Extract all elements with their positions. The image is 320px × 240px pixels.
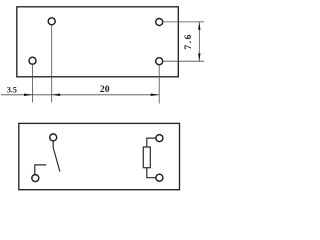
extension line from pin D (right) (163, 60, 204, 62)
coil top pin circle (156, 135, 163, 142)
switch lead stub (52, 141, 54, 148)
coil rectangle (143, 147, 150, 168)
arrowhead at x=159.2 pointing right (20 dim) (151, 94, 160, 97)
arrowhead at y=61.2 pointing down (7.6 dim) (198, 53, 200, 61)
switch fixed pin circle (32, 175, 39, 182)
vertical dimension line (7.6) (198, 22, 200, 61)
mounting hole / pin B (bottom left) (29, 57, 36, 64)
horizontal dimension line (3.5 and 20) (1, 94, 159, 96)
schematic box outline (bottom view) (19, 123, 180, 189)
switch common pin circle (50, 134, 57, 141)
coil bottom pin circle (156, 174, 163, 181)
arrowhead at x=51.7 pointing left (3.5/20 dim) (52, 94, 61, 97)
extension line from pin B (32, 65, 34, 103)
fixed contact bracket (35, 165, 46, 174)
mounting hole / pin D (bottom right) (156, 58, 163, 65)
extension line from pin C (right) (163, 21, 204, 23)
extension line from pin A (51, 25, 53, 102)
arrowhead at y=22 pointing up (7.6 dim) (198, 22, 200, 30)
coil top lead (147, 138, 156, 147)
mounting hole / pin A (top left) (48, 18, 55, 25)
svg-text:3.5: 3.5 (7, 86, 17, 95)
arrowhead at x=32.5 pointing right (3.5 dim) (24, 94, 33, 97)
mounting hole / pin C (top right) (156, 19, 163, 26)
svg-text:7.6: 7.6 (183, 33, 194, 50)
relay body outline (top view) (17, 7, 179, 77)
extension line from pin D (down) (158, 65, 160, 103)
svg-text:20: 20 (100, 84, 110, 95)
coil bottom lead (147, 168, 156, 178)
switch movable blade (53, 148, 60, 172)
